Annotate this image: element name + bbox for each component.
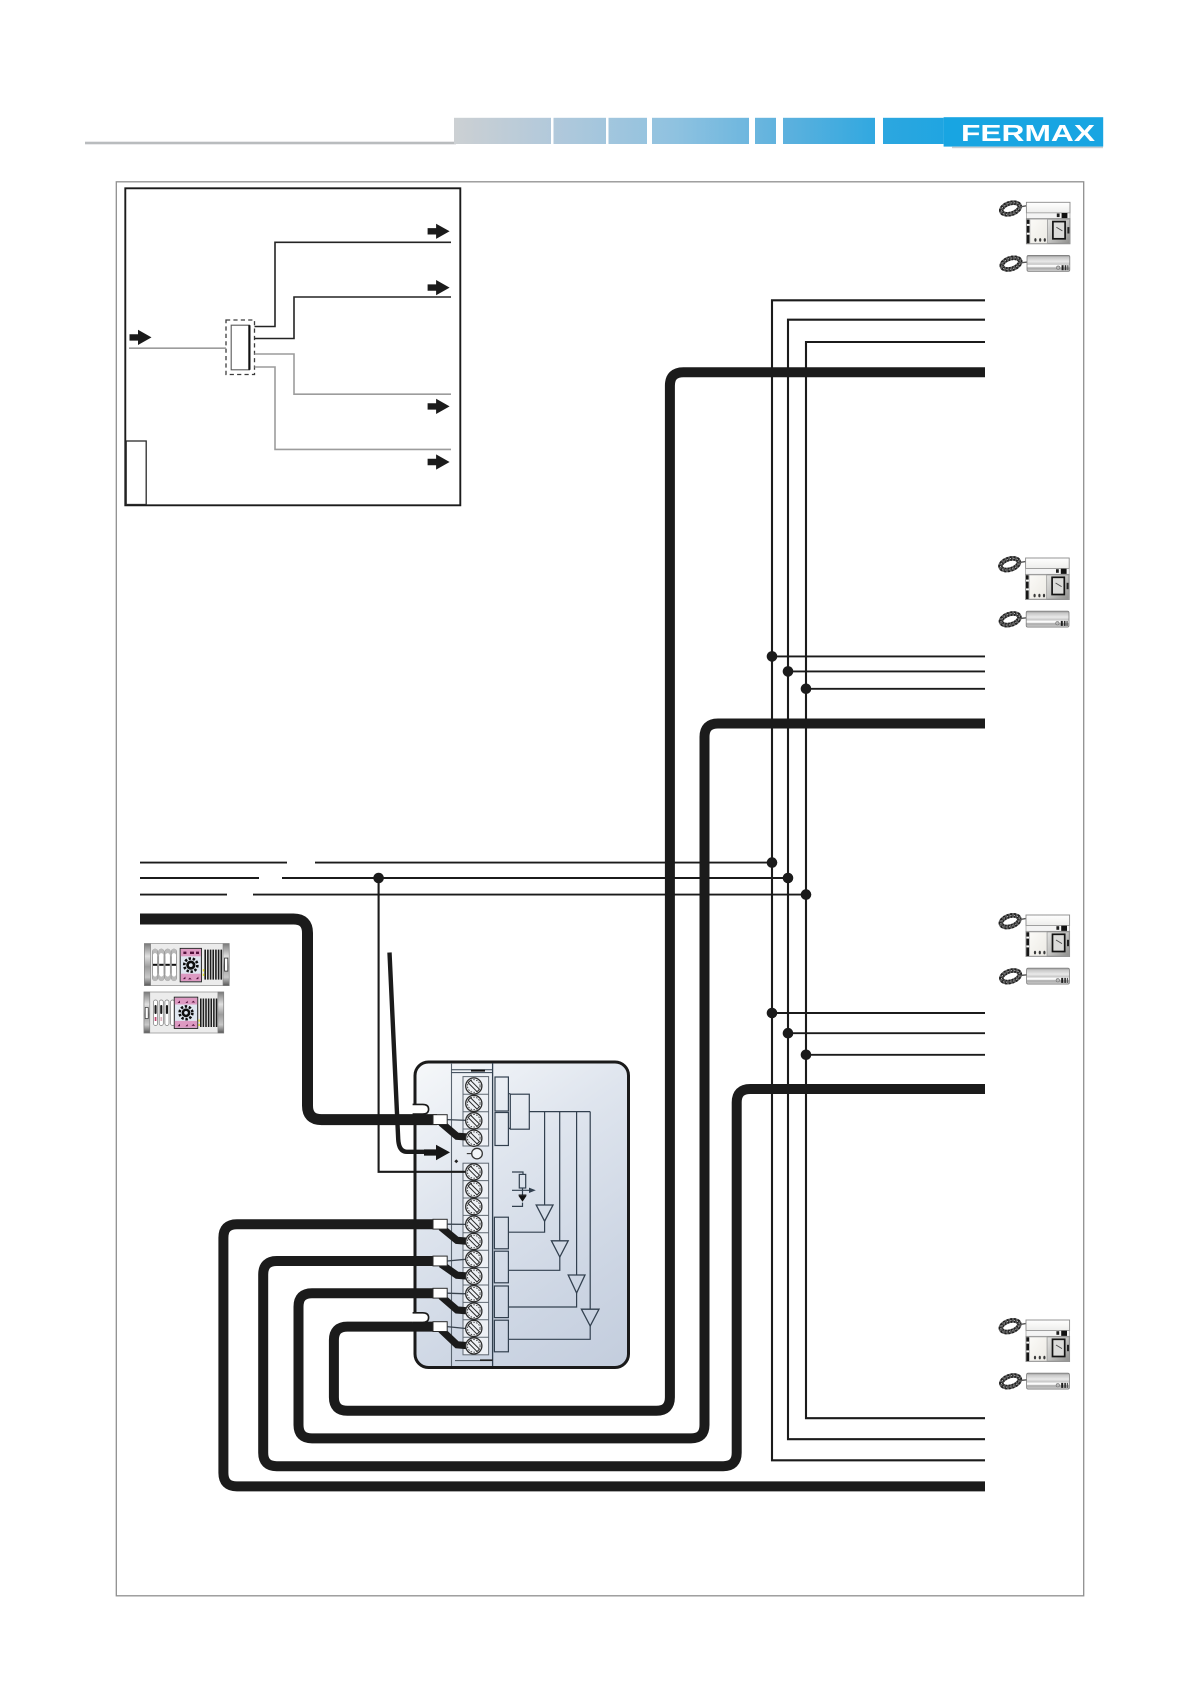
screw terminal B9 (466, 1303, 482, 1319)
connector lug 4 (433, 1322, 447, 1332)
strip top lines (452, 1070, 493, 1073)
connector link line 2 (447, 1259, 467, 1261)
connector lug 3 (433, 1288, 447, 1298)
loop wire U1 (to station 1) (334, 372, 985, 1411)
connector lug 2 (433, 1256, 447, 1266)
output rect RO2 (494, 1251, 508, 1283)
box border notch (413, 1106, 418, 1113)
bus line L3 (right segment) (253, 894, 806, 896)
distributor divider (492, 1063, 494, 1366)
screw terminal B2 (466, 1181, 482, 1197)
screw terminal B8 (466, 1286, 482, 1302)
connector link line 1 (447, 1223, 467, 1225)
power module M2 (144, 992, 224, 1033)
amp A2 output line (508, 1257, 559, 1270)
screw terminal B5 (466, 1233, 482, 1249)
legend output line C (255, 354, 452, 394)
svg-text:FERMAX: FERMAX (961, 120, 1096, 146)
legend arrow D (428, 454, 450, 469)
legend output line A (255, 242, 452, 326)
header gradient bar segments (454, 118, 551, 144)
inset legend box (125, 188, 460, 505)
jumper circle terminal (467, 1153, 472, 1155)
amplifier triangle A3 (568, 1275, 585, 1293)
feeder wire W0 from riser column (140, 919, 437, 1120)
relay rect R1 (495, 1077, 508, 1111)
intercom station 3 (999, 913, 1069, 984)
riser bus V2 (788, 320, 985, 1440)
relay rect R2 (495, 1113, 508, 1146)
amplifier triangle A2 (551, 1241, 568, 1257)
legend arrow B (428, 280, 450, 295)
bus line L1 (left segment) (140, 862, 287, 864)
programming pointer arrow (424, 1145, 450, 1160)
legend riser rect (126, 441, 146, 505)
FERMAX logo (944, 117, 1104, 146)
output rect RO3 (494, 1286, 508, 1318)
bus line L2 (left segment) (140, 877, 259, 879)
outer frame (116, 182, 1083, 1596)
amp A3 output line (508, 1293, 576, 1307)
terminal block lower (463, 1163, 489, 1355)
legend input line (129, 347, 226, 349)
legend arrow A (428, 224, 450, 239)
control block rect (510, 1094, 529, 1129)
bus line L3 (left segment) (140, 894, 227, 896)
strip bottom line (455, 1360, 493, 1362)
junction dots (767, 651, 778, 662)
programming pointer line (390, 953, 427, 1152)
riser bus V1 (772, 300, 985, 1460)
output rect RO4 (494, 1320, 508, 1352)
power module M1 (144, 944, 229, 986)
distributor box body (415, 1062, 629, 1368)
legend distributor component (dashed) (226, 320, 255, 375)
bus line L2 (right segment) (282, 877, 788, 879)
wire diagonal to terminal 2 (441, 1264, 472, 1276)
loop wire U3 (to station 3) (263, 1089, 985, 1466)
output rect RO1 (494, 1217, 508, 1249)
bus line L1 (right segment) (315, 862, 772, 864)
screw terminal B3 (466, 1199, 482, 1215)
station3 tap lines (772, 1013, 985, 1055)
amplifier triangle A1 (536, 1205, 553, 1221)
screw terminal B4 (466, 1216, 482, 1232)
legend arrow C (428, 399, 450, 414)
connector lug 0 (433, 1115, 447, 1125)
amplifier triangle A4 (581, 1309, 599, 1326)
connector link line 3 (447, 1292, 467, 1295)
connector link line 4 (447, 1327, 467, 1329)
station2 tap lines (772, 656, 985, 688)
wire diagonal to terminal 4 (441, 1330, 472, 1346)
legend output line D (255, 367, 452, 449)
distributor inner left rail (451, 1063, 453, 1366)
amp feed verticals (545, 1112, 591, 1310)
bus feed line (529, 1111, 590, 1113)
zener network (512, 1172, 529, 1206)
screw terminal B10 (466, 1320, 482, 1336)
connector link line 0 (447, 1119, 467, 1122)
terminal block upper (463, 1077, 489, 1146)
intercom station 4 (999, 1318, 1069, 1389)
box border notch (413, 1314, 418, 1321)
signal drop wire to distributor (379, 878, 466, 1172)
screw terminal T1 (466, 1078, 482, 1094)
amp A1 output line (508, 1221, 544, 1232)
wire diagonal to terminal 0 (441, 1123, 472, 1138)
wire diagonal to terminal 1 (441, 1227, 472, 1241)
wire diagonal to terminal 3 (441, 1296, 472, 1311)
screw terminal B11 (466, 1338, 482, 1354)
connector lug 1 (433, 1219, 447, 1229)
screw terminal T3 (466, 1113, 482, 1129)
loop wire U2 (to station 2) (299, 724, 986, 1439)
screw terminal B6 (466, 1251, 482, 1267)
legend output line B (255, 297, 452, 339)
legend input arrow (130, 330, 152, 345)
screw terminal T2 (466, 1095, 482, 1111)
loop wire U4 (to station 4) (223, 1224, 985, 1486)
header rule line (85, 142, 456, 145)
screw terminal T4 (466, 1130, 482, 1146)
screw terminal B7 (466, 1268, 482, 1284)
riser bus V3 (806, 342, 985, 1418)
amp A4 output line (508, 1326, 590, 1339)
intercom station 1 (1000, 201, 1070, 272)
screw terminal B1 (466, 1164, 482, 1180)
intercom station 2 (999, 556, 1069, 627)
